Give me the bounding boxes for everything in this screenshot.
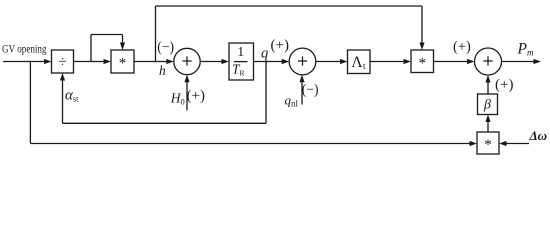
arrowhead into multiplier M3 left — [470, 141, 478, 146]
svg-text:t: t — [363, 61, 366, 71]
svg-text:(−): (−) — [157, 40, 174, 56]
wire: inner feedback bottom horizontal — [63, 122, 267, 124]
wire: beta block up to summing 3 — [487, 81, 489, 94]
arrowhead into multiplier M2 left — [404, 59, 412, 64]
wire: summing 2 to At block — [316, 61, 342, 63]
symbol: plus in S1 — [182, 56, 191, 65]
arrowhead into beta bottom — [485, 115, 490, 123]
wire: squaring loop down into multiplier top — [122, 35, 124, 45]
svg-text:*: * — [484, 137, 492, 153]
arrowhead into summing S3 left — [467, 59, 475, 64]
svg-text:1: 1 — [237, 45, 244, 60]
arrowhead into divider left — [44, 59, 52, 64]
wire: squaring loop top — [91, 34, 123, 36]
gain block beta — [478, 94, 498, 115]
summing junction S1 — [174, 48, 200, 74]
arrowhead into multiplier M3 right (delta-omega) — [499, 141, 507, 146]
wire: GV opening input — [3, 61, 46, 63]
svg-text:αst: αst — [65, 88, 79, 104]
wire: divider to multiplier — [74, 61, 106, 63]
symbol: plus in S2 — [298, 56, 307, 65]
wire: Pm output — [502, 61, 536, 63]
svg-text:Δω: Δω — [529, 128, 548, 143]
svg-text:*: * — [418, 55, 426, 71]
symbol: plus in S3 — [483, 56, 492, 65]
fraction bar of 1/TR — [234, 61, 248, 63]
svg-text:h: h — [159, 63, 166, 78]
svg-text:β: β — [483, 98, 491, 113]
arrowhead into 1/TR left — [222, 59, 230, 64]
wire: delta-omega input — [505, 143, 529, 145]
svg-text:qnl: qnl — [285, 93, 299, 109]
wire: squaring loop up — [90, 35, 92, 62]
wire: inner feedback right vertical (q takeoff) — [265, 62, 267, 124]
svg-text:Λ: Λ — [351, 54, 363, 71]
svg-text:(+): (+) — [271, 38, 289, 54]
svg-text:H0: H0 — [170, 91, 185, 107]
arrowhead into multiplier M1 left — [104, 59, 112, 64]
multiplier block M2 — [411, 50, 434, 73]
svg-text:(+): (+) — [187, 88, 205, 104]
summing junction S2 — [289, 48, 316, 75]
wire: inner feedback left vertical into divider — [62, 79, 64, 123]
wire: top feedforward down into multiplier 2 — [421, 6, 423, 44]
divider block DIV — [52, 50, 74, 73]
arrowhead into divider bottom — [60, 73, 65, 81]
arrowhead into At left — [340, 59, 348, 64]
multiplier block M3 — [477, 132, 499, 154]
arrowhead into summing S1 left — [166, 59, 174, 64]
wire: outer feedback bottom horizontal — [30, 143, 471, 145]
wire: qnl input vertical — [301, 81, 303, 105]
arrowhead Pm output — [534, 59, 542, 64]
wire: multiplier 3 up to beta block — [487, 121, 489, 133]
arrowhead into summing S2 bottom (qnl) — [299, 75, 304, 83]
multiplier block M1 (squarer) — [111, 50, 134, 73]
svg-text:(−): (−) — [302, 82, 319, 98]
arrowhead into multiplier M1 top — [120, 43, 125, 51]
integrator block 1/TR — [229, 43, 254, 80]
svg-text:q: q — [261, 46, 268, 62]
wire: H0 input vertical — [186, 81, 188, 111]
svg-text:TR: TR — [232, 62, 245, 78]
svg-text:÷: ÷ — [58, 54, 66, 70]
wire: At to multiplier 2 — [370, 61, 405, 63]
arrowhead into summing S1 bottom (H0) — [184, 75, 189, 83]
arrowhead into summing S3 bottom (beta) — [485, 75, 490, 83]
gain block At — [348, 50, 371, 74]
wire: h takeoff vertical up — [155, 6, 157, 62]
wire: 1/TR to summing junction 2 (q) — [254, 61, 284, 63]
svg-text:(+): (+) — [453, 39, 471, 55]
svg-text:(+): (+) — [495, 77, 513, 93]
wire: top feedforward horizontal (h to multiplier 2) — [156, 5, 423, 7]
wire: outer feedback left vertical — [29, 62, 31, 144]
arrowhead into multiplier M2 top — [419, 43, 424, 51]
wire: multiplier 2 to summing junction 3 — [434, 61, 469, 63]
wire: multiplier to summing junction 1 (h) — [134, 61, 168, 63]
wire: summing 1 to 1/TR block — [200, 61, 223, 63]
svg-text:GV opening: GV opening — [2, 42, 47, 56]
svg-text:Pm: Pm — [517, 41, 534, 58]
arrowhead into summing S2 left — [282, 59, 290, 64]
svg-text:*: * — [119, 55, 127, 71]
summing junction S3 — [475, 48, 502, 75]
